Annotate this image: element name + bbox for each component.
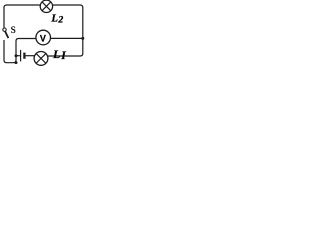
svg-text:L: L bbox=[52, 47, 60, 61]
svg-text:I: I bbox=[60, 49, 66, 62]
svg-text:L: L bbox=[50, 12, 58, 24]
svg-text:V: V bbox=[40, 33, 46, 43]
svg-text:S: S bbox=[11, 26, 16, 36]
svg-text:2: 2 bbox=[57, 14, 63, 25]
